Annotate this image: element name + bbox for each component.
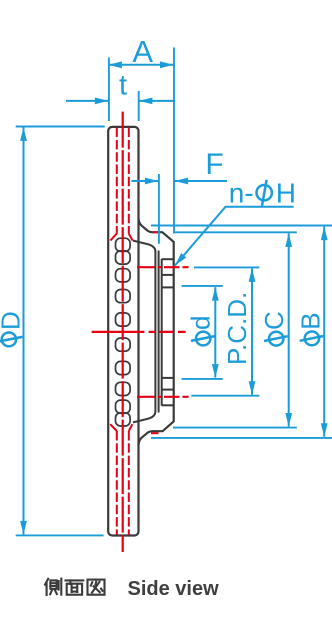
chain rollers [116, 238, 131, 426]
dimension F left arrow [132, 180, 159, 182]
phiD top extension line [16, 126, 105, 128]
dimension PCD line [251, 268, 253, 394]
rung: bottom bolt hole upper edge [162, 389, 174, 391]
red flare bottom left [110, 424, 117, 431]
red main horizontal center line [92, 331, 186, 333]
red flare bottom right [129, 424, 133, 431]
hub outline upper: plate face to hub face via step top [139, 219, 174, 446]
phid top extension line [182, 285, 223, 287]
svg-text:F: F [205, 148, 223, 181]
phiC top extension line [173, 231, 297, 233]
svg-text:D: D [0, 311, 25, 330]
label phiD [0, 311, 25, 346]
extension line F left [158, 174, 160, 244]
rung: bore bottom line [162, 377, 174, 379]
svg-text:C: C [259, 311, 289, 330]
rung: top bolt hole lower edge [162, 274, 174, 276]
leader n-phiH [175, 207, 294, 266]
phiB top extension line [151, 225, 332, 227]
red bottom bolt hole center line [137, 396, 189, 398]
PCD bottom extension line [191, 395, 259, 397]
label phid [186, 316, 216, 346]
red tick on hub top face [154, 231, 161, 233]
label phi of n-phiH [257, 180, 272, 206]
svg-text:Side view: Side view [128, 578, 220, 600]
red flare top left [110, 234, 116, 241]
svg-text:A: A [132, 34, 153, 69]
bolt hole / bore wall line [161, 259, 163, 406]
caption kanji soku (side) drawn as strokes [45, 579, 61, 595]
dimension t right arrow [139, 100, 174, 102]
svg-text:n-: n- [229, 178, 254, 209]
caption kanji zu (drawing) drawn as strokes [88, 580, 105, 595]
red center line vertical [122, 112, 124, 552]
dimension F right arrow [175, 180, 227, 182]
rung: top bolt hole upper edge [162, 258, 174, 260]
svg-text:d: d [186, 316, 216, 330]
red chain pitch hidden line lower right [128, 431, 130, 535]
red chain pitch hidden line lower left [116, 431, 118, 535]
rung: bottom bolt hole lower edge [162, 404, 174, 406]
svg-text:H: H [276, 178, 296, 209]
dimension phiC line [288, 233, 290, 426]
red top bolt hole center line [137, 266, 189, 268]
extension line A/t left [108, 58, 110, 122]
extension line A/F right [173, 48, 175, 234]
dimension phiD line [23, 127, 25, 534]
dimension A line [108, 64, 173, 66]
dimension phiB line [323, 227, 325, 437]
dimension phid line [214, 287, 216, 378]
phid bottom extension line [182, 378, 223, 380]
red chain pitch hidden line upper right [128, 128, 130, 234]
PCD top extension line [194, 266, 259, 268]
label phiC [259, 311, 289, 345]
phiC bottom extension line [173, 427, 297, 429]
caption kanji men (face) drawn as strokes [66, 580, 84, 594]
step face second line [158, 251, 160, 413]
step face line with fillets [133, 241, 155, 423]
red flare top right [129, 234, 133, 241]
svg-text:t: t [119, 69, 127, 101]
phiD bottom extension line [16, 534, 104, 536]
label phiB [295, 312, 325, 345]
red chain pitch hidden line upper left [116, 128, 118, 234]
svg-text:B: B [295, 312, 325, 329]
dimension t left arrow [66, 100, 108, 102]
phiB bottom extension line [151, 437, 332, 439]
rung: bore top line [162, 286, 174, 288]
part outline: sprocket plate [108, 127, 138, 536]
svg-text:P.C.D.: P.C.D. [222, 292, 252, 365]
red tick on hub bottom face [151, 432, 159, 434]
extension line t right [138, 91, 140, 121]
